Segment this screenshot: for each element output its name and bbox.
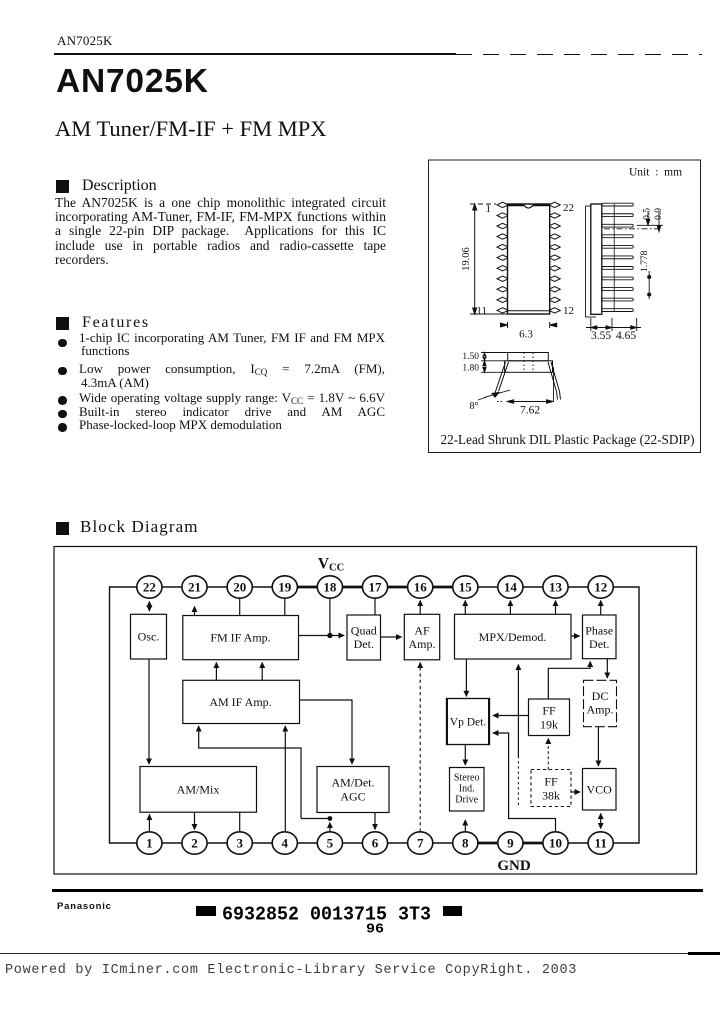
end view angle 8 deg	[478, 390, 510, 400]
svg-text:21: 21	[188, 580, 201, 595]
wire pin8 stub arrow	[464, 820, 466, 832]
svg-text:4.65: 4.65	[616, 330, 636, 342]
svg-text:AM/Det.: AM/Det.	[332, 776, 375, 790]
pin 14	[498, 576, 523, 598]
svg-text:22: 22	[563, 202, 574, 214]
pin 7	[408, 832, 433, 854]
svg-text:8°: 8°	[470, 401, 479, 412]
svg-text:38k: 38k	[542, 789, 560, 803]
svg-text:Drive: Drive	[455, 795, 478, 806]
wire Quad Det to AF Amp	[381, 636, 402, 638]
side view body	[586, 204, 602, 317]
side view pins	[602, 203, 634, 312]
wire Vp Det to Stereo Ind Drive	[464, 745, 466, 765]
svg-text:1: 1	[486, 203, 492, 215]
svg-text:4: 4	[282, 836, 289, 851]
wire pin4 to AM IF	[284, 726, 286, 832]
wire MPX to Phase Det	[571, 635, 580, 637]
pin 22	[137, 576, 162, 598]
front view pins right	[550, 202, 561, 313]
svg-text:13: 13	[549, 580, 563, 595]
end view (cross-section)	[495, 353, 561, 400]
svg-text:12: 12	[563, 305, 574, 317]
end view dim 7.62	[497, 367, 554, 403]
pin 11	[588, 832, 613, 854]
junction dot above pin5	[328, 816, 333, 821]
block Phase Det	[583, 615, 617, 659]
Features section	[56, 317, 69, 330]
side view dims 3.55 4.65	[586, 318, 641, 331]
svg-text:Unit : mm: Unit : mm	[629, 167, 682, 179]
svg-text:MPX/Demod.: MPX/Demod.	[479, 630, 547, 644]
block Osc	[131, 614, 167, 659]
block diagram	[40, 540, 720, 886]
wire pin7 to AF Amp	[419, 663, 421, 832]
wire AM/Mix to pin3	[239, 812, 241, 832]
svg-text:11: 11	[476, 305, 487, 317]
svg-text:VCC: VCC	[318, 556, 344, 574]
block AM/Det AGC	[317, 767, 389, 813]
Panasonic logotype	[57, 902, 112, 912]
svg-text:2: 2	[191, 836, 198, 851]
side view dims 0.5 0.9	[604, 211, 663, 232]
wire pin12 to pin11 right loop	[601, 587, 639, 843]
heavy rule below diagram	[52, 889, 703, 892]
block MPX/Demod	[455, 614, 572, 659]
wire FF19k to Phase Det	[548, 662, 590, 699]
svg-text:6932852 0013715 3T3: 6932852 0013715 3T3	[222, 904, 431, 926]
OCR barcode line	[190, 898, 490, 938]
svg-text:Ind.: Ind.	[459, 784, 475, 795]
pin 15	[453, 576, 478, 598]
running head	[57, 34, 113, 47]
svg-text:Phase: Phase	[585, 624, 613, 638]
svg-text:Quad: Quad	[351, 624, 377, 638]
pin 13	[543, 576, 568, 598]
block FF 38k	[531, 770, 571, 807]
svg-text:6: 6	[372, 836, 379, 851]
svg-text:AM IF Amp.: AM IF Amp.	[209, 695, 271, 709]
svg-text:0.9: 0.9	[654, 208, 664, 220]
pin number labels	[476, 202, 574, 317]
svg-text:DC: DC	[592, 689, 609, 703]
svg-text:17: 17	[369, 580, 383, 595]
svg-text:20: 20	[233, 580, 246, 595]
wire Phase Det to DC Amp	[606, 659, 608, 678]
wire AM/Mix to pin2	[194, 812, 196, 829]
block FM IF Amp	[183, 616, 299, 660]
dimension 6.3	[501, 322, 557, 328]
svg-text:Amp.: Amp.	[409, 637, 436, 651]
svg-text:14: 14	[504, 580, 518, 595]
wire pin1 to AM/Mix	[148, 815, 150, 832]
pin 6	[362, 832, 387, 854]
subtitle	[55, 118, 327, 141]
dimension 19.06	[470, 204, 507, 314]
wire pin20 to FM IF	[239, 598, 241, 615]
svg-text:8: 8	[462, 836, 469, 851]
block AM/Mix	[140, 767, 257, 813]
wire FM IF to Quad Det	[299, 635, 345, 637]
svg-text:12: 12	[594, 580, 607, 595]
svg-text:22-Lead Shrunk DIL Plastic Pac: 22-Lead Shrunk DIL Plastic Package (22-S…	[440, 432, 694, 447]
svg-text:22: 22	[143, 580, 156, 595]
block Stereo Ind Drive	[450, 768, 485, 812]
svg-text:AGC: AGC	[340, 790, 365, 804]
wire VCO pin11 double arrow	[600, 814, 602, 829]
wire MPX to pin14	[509, 601, 511, 615]
wire Vcc stub from pin18	[329, 598, 331, 635]
pin 8	[453, 832, 478, 854]
wire bottom pin row	[149, 842, 600, 844]
wire AM IF to FM IF left arrow	[215, 663, 217, 681]
svg-text:19k: 19k	[540, 718, 558, 732]
svg-text:15: 15	[459, 580, 473, 595]
pin 3	[227, 832, 252, 854]
wire MPX to Vp Det	[465, 659, 467, 696]
svg-text:18: 18	[323, 580, 337, 595]
wire AM IF to AM/Det AGC	[300, 700, 353, 764]
wire pin17 to Quad Det	[374, 598, 376, 615]
svg-text:0.5: 0.5	[643, 208, 653, 220]
pin 16	[408, 576, 433, 598]
svg-text:1.778: 1.778	[640, 250, 650, 272]
svg-text:AM/Mix: AM/Mix	[177, 783, 220, 797]
end view dims 1.50 1.80	[481, 353, 508, 373]
svg-text:Osc.: Osc.	[138, 630, 160, 644]
wire pin21 stub arrow	[194, 607, 196, 616]
header rule	[54, 53, 456, 55]
footer rule	[0, 953, 720, 954]
pin 18	[317, 576, 342, 598]
svg-text:1: 1	[146, 836, 153, 851]
wire AGC feedback to AM IF	[199, 726, 301, 819]
svg-text:5: 5	[327, 836, 334, 851]
svg-text:96: 96	[366, 923, 384, 938]
wire FF38k to FF19k	[547, 739, 549, 770]
wire pin10 to Vp Det	[493, 733, 556, 832]
wire pin19 to FM IF	[284, 598, 286, 615]
wire pin22-Osc double arrow	[148, 602, 150, 612]
pin 4	[272, 832, 297, 854]
wire FF19k to Vp Det	[493, 715, 529, 717]
wire pin22 to pin1 left loop	[110, 587, 150, 843]
wire DC Amp to VCO	[597, 727, 599, 766]
wire MPX bottom long stub	[517, 665, 519, 757]
diagram outer frame	[54, 547, 697, 875]
wire FF38k to VCO	[571, 791, 580, 793]
front view pins left	[497, 202, 508, 313]
svg-text:Vp Det.: Vp Det.	[450, 717, 487, 729]
svg-text:7.62: 7.62	[520, 405, 540, 417]
block FF 19k	[529, 699, 570, 736]
wire top pin row thick segments	[285, 586, 466, 589]
wire AM IF to FM IF right arrow	[261, 663, 263, 681]
pin 9	[498, 832, 523, 854]
svg-text:Stereo: Stereo	[454, 773, 480, 784]
Description section	[56, 180, 69, 193]
wire MPX bottom stub dotted tail	[517, 756, 519, 806]
wire AF Amp to pin16	[419, 601, 421, 615]
title	[56, 65, 209, 99]
block AF Amp	[404, 614, 439, 660]
wire top pin row	[149, 586, 600, 588]
svg-text:Det.: Det.	[354, 637, 374, 651]
package box frame	[429, 160, 701, 453]
pin 19	[272, 576, 297, 598]
svg-text:16: 16	[414, 580, 428, 595]
side view dim 1.778	[648, 271, 651, 299]
svg-text:19: 19	[278, 580, 292, 595]
svg-text:FM IF Amp.: FM IF Amp.	[210, 631, 270, 645]
wire pin5 stub arrow	[329, 823, 331, 832]
pin 21	[182, 576, 207, 598]
junction dot below pin18	[327, 633, 332, 638]
Block Diagram section	[56, 522, 69, 535]
pin 17	[362, 576, 387, 598]
svg-text:Amp.: Amp.	[587, 703, 614, 717]
block DC Amp	[584, 680, 617, 726]
svg-text:FF: FF	[542, 704, 556, 718]
footer text	[5, 964, 577, 978]
svg-text:Det.: Det.	[589, 637, 609, 651]
pin 20	[227, 576, 252, 598]
wire MPX to pin13	[555, 601, 557, 615]
svg-text:VCO: VCO	[587, 783, 613, 797]
svg-text:9: 9	[507, 836, 514, 851]
pin 2	[182, 832, 207, 854]
svg-text:10: 10	[549, 836, 562, 851]
wire bottom pin row thick segments	[465, 842, 555, 845]
block Vp Det	[447, 699, 490, 745]
svg-text:19.06: 19.06	[461, 247, 472, 271]
svg-text:AF: AF	[414, 624, 430, 638]
svg-text:11: 11	[595, 836, 607, 851]
front view body	[508, 204, 550, 314]
svg-text:1.50: 1.50	[462, 352, 479, 362]
wire Phase Det to pin12	[600, 601, 602, 616]
block Quad Det	[347, 615, 381, 660]
wire MPX to pin15	[464, 601, 466, 615]
pin 10	[543, 832, 568, 854]
svg-text:GND: GND	[497, 858, 531, 874]
pin 5	[317, 832, 342, 854]
pin 12	[588, 576, 613, 598]
block AM IF Amp	[183, 680, 300, 723]
pin 1	[137, 832, 162, 854]
package drawing box	[427, 158, 703, 455]
svg-text:3.55: 3.55	[591, 330, 611, 342]
svg-text:1.80: 1.80	[462, 364, 479, 374]
svg-text:6.3: 6.3	[519, 329, 533, 341]
wire Osc to AM/Mix	[148, 659, 150, 764]
wire junction to AGC bottom	[301, 818, 330, 820]
svg-text:3: 3	[236, 836, 243, 851]
wire AM/Det AGC to pin6	[374, 813, 376, 830]
block VCO	[583, 769, 617, 811]
svg-text:7: 7	[417, 836, 424, 851]
svg-text:FF: FF	[544, 775, 558, 789]
